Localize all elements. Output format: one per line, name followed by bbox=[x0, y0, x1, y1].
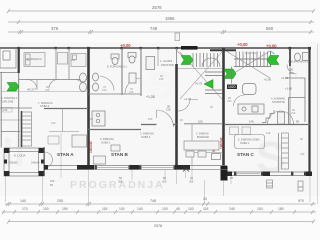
svg-text:180: 180 bbox=[278, 207, 284, 211]
svg-text:WC ET: WC ET bbox=[27, 88, 36, 92]
svg-text:3. DNEVNA: 3. DNEVNA bbox=[140, 132, 154, 136]
svg-text:1856: 1856 bbox=[165, 16, 175, 21]
bottom wall dark chunk left end bbox=[44, 165, 48, 170]
chimney label box bbox=[175, 33, 180, 41]
dimension line 1856 bbox=[8, 20, 314, 24]
svg-text:205: 205 bbox=[189, 180, 194, 184]
door arc left room bbox=[27, 80, 37, 90]
bottom wall dark chunk A-B bbox=[77, 165, 94, 170]
svg-text:100: 100 bbox=[43, 207, 49, 211]
top exterior wall bbox=[0, 47, 310, 49]
bath bottom wall bbox=[88, 93, 141, 95]
double door arcs C bbox=[268, 111, 281, 124]
door posts C bbox=[279, 112, 282, 124]
door arc room 3 bbox=[75, 80, 83, 88]
party wall C bottom black block bbox=[221, 166, 228, 181]
service stair ladder left bbox=[22, 112, 32, 146]
komora divider bbox=[0, 119, 21, 121]
svg-text:097: 097 bbox=[299, 185, 304, 189]
stair treads left flight bbox=[193, 53, 218, 67]
stair winder arc bbox=[202, 58, 220, 67]
STAN A line mid bbox=[49, 131, 79, 133]
bedroom partition x69 bbox=[68, 48, 70, 79]
terrace B vline bbox=[191, 125, 193, 167]
corridor line left bbox=[1, 91, 88, 93]
zigzag hall C bbox=[262, 110, 274, 123]
window X mark bbox=[183, 166, 189, 172]
door arc room 2 bbox=[49, 80, 58, 89]
right exterior wall bbox=[308, 47, 310, 175]
bottom dim line B bbox=[2, 210, 316, 214]
stair void X right bbox=[226, 51, 270, 78]
svg-text:+0,00: +0,00 bbox=[264, 78, 272, 82]
extension line STAN A bbox=[60, 133, 62, 178]
svg-text:5. KUPAONICA 3: 5. KUPAONICA 3 bbox=[288, 60, 309, 64]
door arc stair-C bbox=[234, 95, 245, 106]
terrace STAN A bbox=[4, 148, 44, 176]
STAN A wardrobe right bbox=[72, 135, 87, 147]
dining table C bbox=[230, 127, 239, 135]
STAN B table bbox=[111, 145, 120, 151]
STAN A vertical line bbox=[62, 109, 64, 132]
stair chip 1020 bbox=[227, 85, 237, 90]
svg-text:SOBA 1: SOBA 1 bbox=[240, 141, 250, 145]
carpet rounded C bbox=[235, 135, 265, 149]
party wall B-stairs bbox=[176, 48, 178, 64]
svg-text:748: 748 bbox=[150, 199, 156, 203]
left loggia top-left bbox=[0, 49, 18, 73]
svg-text:140/240: 140/240 bbox=[220, 137, 224, 149]
svg-text:STAN C: STAN C bbox=[237, 152, 254, 157]
svg-text:1. SPAVACA: 1. SPAVACA bbox=[27, 57, 42, 61]
svg-text:118: 118 bbox=[102, 207, 108, 211]
terasa top wall bbox=[184, 123, 223, 125]
exterior step C bbox=[267, 180, 273, 188]
landing rounded bbox=[243, 84, 257, 95]
komora walls bbox=[0, 107, 32, 109]
svg-text:+1,35: +1,35 bbox=[146, 95, 155, 99]
ladder C bbox=[282, 133, 289, 169]
bottom dark chunk C left bbox=[227, 172, 232, 177]
bottom wall band left bbox=[44, 166, 227, 170]
svg-text:216: 216 bbox=[3, 108, 8, 112]
svg-text:90: 90 bbox=[296, 120, 300, 124]
right edge dim line bbox=[317, 44, 319, 204]
svg-text:120: 120 bbox=[51, 121, 56, 125]
right inset wall x288 bbox=[288, 98, 290, 125]
svg-text:STUBISTE: STUBISTE bbox=[272, 100, 285, 104]
svg-text:245: 245 bbox=[229, 207, 235, 211]
svg-text:4. KOMORA 1: 4. KOMORA 1 bbox=[1, 96, 18, 100]
bed 2 STAN A bbox=[71, 54, 86, 67]
svg-text:1020=5x17: 1020=5x17 bbox=[245, 51, 258, 55]
svg-text:S: S bbox=[256, 133, 285, 182]
door arc stair hall bottom bbox=[178, 100, 190, 112]
party wall stairs-C bbox=[222, 49, 225, 171]
WC fixtures left of party wall bbox=[80, 73, 87, 92]
svg-text:376: 376 bbox=[51, 26, 59, 31]
svg-text:210: 210 bbox=[166, 108, 171, 112]
room bottom line STAN A top bbox=[19, 79, 88, 81]
right hall wall x305 bbox=[304, 78, 306, 122]
hall B furniture bbox=[129, 57, 155, 84]
svg-text:8. KUPAONICA 1: 8. KUPAONICA 1 bbox=[107, 65, 128, 69]
right hall wall y78 bbox=[285, 77, 305, 79]
svg-text:210: 210 bbox=[129, 90, 134, 94]
svg-text:748: 748 bbox=[150, 26, 158, 31]
STAN B sofa bbox=[94, 156, 106, 164]
green arrow E bbox=[204, 80, 213, 89]
svg-text:20: 20 bbox=[203, 197, 207, 201]
bedroom wall C bbox=[278, 133, 280, 172]
bottom wall dark chunk B-terrace bbox=[175, 165, 190, 170]
STAN A terrace wall bbox=[43, 147, 45, 176]
green arrow C bbox=[224, 69, 236, 79]
svg-text:210: 210 bbox=[159, 77, 164, 81]
bottom dark chunk C right bbox=[306, 172, 312, 177]
svg-text:SUPLJINE: SUPLJINE bbox=[1, 100, 14, 104]
svg-text:255: 255 bbox=[57, 199, 63, 203]
svg-text:SOBA 1: SOBA 1 bbox=[101, 141, 111, 145]
STAN A table bbox=[48, 136, 59, 144]
left stair wall bbox=[21, 111, 23, 147]
green arrow D bbox=[267, 56, 279, 65]
wall mid B bbox=[141, 124, 157, 126]
top wall jamb marks bbox=[18, 47, 312, 51]
svg-text:100: 100 bbox=[198, 120, 203, 124]
door arc hall B bbox=[157, 110, 174, 127]
corridor wall y124 right bbox=[224, 124, 310, 126]
komora dims bbox=[2, 108, 12, 113]
svg-text:210: 210 bbox=[102, 88, 107, 92]
bath wall x141 bbox=[140, 48, 142, 96]
stair right wall bbox=[289, 48, 291, 66]
svg-text:2. DNEVNI: 2. DNEVNI bbox=[196, 132, 209, 136]
stair tower dark wall top bbox=[181, 46, 198, 50]
svg-text:4. KOMNAK: 4. KOMNAK bbox=[271, 97, 285, 101]
kitchen counter B bbox=[92, 111, 105, 126]
svg-text:210: 210 bbox=[300, 152, 305, 156]
left exterior edge bbox=[0, 73, 2, 148]
hall partition x158 bbox=[157, 48, 159, 66]
exterior marker right bbox=[298, 181, 303, 191]
right inset wall y97 bbox=[289, 97, 306, 99]
stairwell entry arc pink bbox=[177, 51, 182, 56]
svg-text:100: 100 bbox=[162, 207, 168, 211]
svg-text:8. LODA: 8. LODA bbox=[14, 154, 26, 158]
svg-text:SOBA 2: SOBA 2 bbox=[141, 135, 151, 139]
bottom dim line C bbox=[7, 220, 315, 224]
svg-text:+0,00: +0,00 bbox=[237, 42, 248, 47]
svg-text:170: 170 bbox=[22, 207, 28, 211]
sofa right B bbox=[184, 141, 219, 157]
terrace B top line bbox=[189, 152, 223, 154]
svg-text:SOBA 2: SOBA 2 bbox=[40, 104, 50, 108]
svg-text:118: 118 bbox=[203, 207, 209, 211]
stair treads lower flight bbox=[205, 72, 222, 94]
bed 1 STAN A bbox=[24, 53, 45, 67]
watermark big letters bbox=[2, 65, 285, 182]
dimension line 376 748 560 bbox=[8, 30, 314, 34]
svg-text:6. DNEVNA SOBA: 6. DNEVNA SOBA bbox=[238, 138, 260, 142]
svg-text:205x60: 205x60 bbox=[9, 161, 18, 165]
svg-text:210: 210 bbox=[291, 111, 296, 115]
svg-text:150: 150 bbox=[50, 179, 55, 183]
door arc bath C bbox=[287, 65, 297, 75]
wardrobe STAN A bbox=[58, 53, 68, 65]
svg-text:2578: 2578 bbox=[152, 5, 162, 10]
svg-text:210: 210 bbox=[45, 88, 50, 92]
sink fixtures right of party wall bbox=[93, 73, 99, 91]
green arrow A bbox=[7, 83, 19, 92]
svg-text:205: 205 bbox=[162, 180, 167, 184]
wardrobe C bbox=[278, 112, 285, 124]
stair treads right flight bbox=[234, 52, 270, 67]
bottom wall dark chunk B bbox=[130, 165, 139, 170]
svg-text:190: 190 bbox=[62, 207, 68, 211]
svg-text:200: 200 bbox=[71, 58, 76, 62]
green arrow B bbox=[181, 56, 193, 65]
svg-text:100: 100 bbox=[148, 117, 153, 121]
svg-text:100: 100 bbox=[188, 207, 194, 211]
terrace B planter bbox=[212, 154, 221, 160]
svg-text:BORAVAK: BORAVAK bbox=[197, 135, 209, 139]
svg-text:4. DNEVNA: 4. DNEVNA bbox=[100, 137, 114, 141]
landing line left cell bbox=[178, 68, 222, 70]
door arc terrace A lower bbox=[45, 160, 53, 168]
terrace posts bbox=[4, 148, 44, 176]
door arc terrace A upper bbox=[45, 152, 53, 160]
svg-text:140: 140 bbox=[20, 199, 26, 203]
svg-text:210: 210 bbox=[227, 99, 232, 103]
kitchen counter C bbox=[238, 104, 264, 114]
svg-text:STAN A: STAN A bbox=[57, 152, 74, 157]
door arc bath B left bbox=[100, 77, 114, 91]
landing bottom wall bbox=[231, 67, 233, 84]
svg-text:STAN B: STAN B bbox=[111, 152, 128, 157]
svg-text:140: 140 bbox=[249, 120, 254, 124]
svg-text:PROSTOR: PROSTOR bbox=[161, 63, 174, 67]
svg-text:100: 100 bbox=[119, 207, 125, 211]
svg-text:205: 205 bbox=[118, 180, 123, 184]
dining chairs C bbox=[242, 127, 251, 135]
micro dim labels scatter bbox=[12, 51, 305, 156]
bottom dim line A bbox=[5, 202, 316, 206]
stair mid wall x270 bbox=[270, 51, 272, 67]
svg-text:560: 560 bbox=[266, 26, 274, 31]
bottom wall band right C bbox=[227, 172, 312, 176]
bath B fixtures top bbox=[111, 53, 136, 65]
svg-text:+0,79: +0,79 bbox=[195, 82, 203, 86]
svg-text:140: 140 bbox=[266, 131, 271, 135]
svg-text:1. ULAZNI: 1. ULAZNI bbox=[160, 59, 172, 63]
teal mark bbox=[271, 52, 275, 55]
svg-text:970: 970 bbox=[298, 199, 304, 203]
secondary top wall line bbox=[210, 49, 236, 51]
svg-text:240x60: 240x60 bbox=[31, 161, 40, 165]
dimension line 2578 top bbox=[7, 9, 315, 13]
svg-text:+1,80: +1,80 bbox=[285, 87, 293, 91]
bath wall x122 bbox=[121, 48, 123, 95]
svg-text:140/240: 140/240 bbox=[89, 141, 93, 153]
svg-text:S: S bbox=[148, 65, 173, 107]
svg-text:140: 140 bbox=[137, 207, 143, 211]
svg-text:2578: 2578 bbox=[154, 224, 162, 228]
svg-text:1020: 1020 bbox=[228, 85, 236, 89]
bottom wall jamb marks bbox=[95, 165, 307, 176]
bedroom partition x56 bbox=[55, 48, 57, 79]
left wall L1 bbox=[18, 48, 20, 73]
bottom dark chunk C mid bbox=[263, 172, 270, 177]
svg-text:45: 45 bbox=[176, 207, 180, 211]
svg-text:100: 100 bbox=[257, 207, 263, 211]
bath C fixtures top right bbox=[295, 53, 309, 62]
door arc bath B bbox=[125, 78, 141, 94]
svg-text:+2,45: +2,45 bbox=[184, 97, 192, 101]
wall under bath B bbox=[88, 129, 141, 131]
STAN A interior wall bbox=[44, 108, 88, 110]
extension stubs below building bbox=[6, 166, 311, 202]
party wall A-B bbox=[87, 48, 90, 169]
stair void X left bbox=[180, 52, 222, 99]
